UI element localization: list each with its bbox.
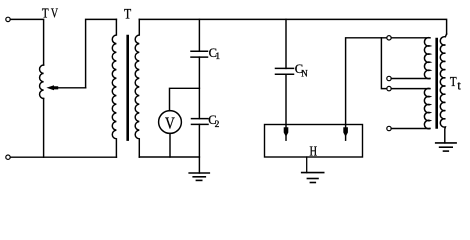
Tt secondary winding: [440, 34, 446, 143]
node: Tt terminal 3: [387, 86, 391, 90]
wire: terminal4 to Tt lower primary bottom: [391, 128, 430, 130]
svg-text:H: H: [310, 145, 318, 160]
voltmeter V: [159, 111, 182, 134]
svg-text:N: N: [301, 68, 308, 78]
input terminal top-left: [6, 17, 10, 21]
wire: variac bottom lead: [43, 99, 45, 158]
arrow into H (left): [284, 127, 289, 140]
wire: bottom-left rail: [10, 156, 116, 158]
svg-text:2: 2: [215, 120, 220, 130]
wire: CN top lead: [285, 19, 287, 68]
wire: terminal1 to Tt upper primary top: [391, 37, 430, 39]
svg-text:1: 1: [215, 52, 220, 62]
node: Tt terminal 1: [387, 36, 391, 40]
svg-text:V: V: [51, 6, 58, 21]
wire: junction riser terminal1 net to terminal3: [381, 38, 386, 89]
svg-text:V: V: [165, 114, 175, 133]
wiper arrow of TV: [46, 85, 85, 90]
Tt upper primary winding: [424, 38, 429, 79]
autotransformer TV winding: [40, 65, 44, 99]
node: Tt terminal 4: [387, 126, 391, 130]
node: Tt terminal 2: [387, 76, 391, 80]
wire: top HV bus: [139, 19, 446, 34]
input terminal bottom-left: [6, 155, 10, 159]
transformer T secondary winding: [135, 19, 139, 157]
capacitor C2: [192, 119, 209, 125]
capacitor C1: [191, 51, 208, 57]
wire: C1-C2 middle lead: [198, 57, 200, 119]
svg-text:T: T: [42, 6, 49, 21]
ground (C2 branch): [189, 173, 209, 180]
wire: terminal3 to Tt lower primary top: [391, 88, 430, 90]
svg-text:t: t: [457, 78, 461, 93]
Tt core: [435, 39, 438, 128]
svg-text:T: T: [124, 6, 131, 22]
wire: CN bottom lead into box H: [285, 74, 287, 128]
wire: C2 bottom lead to ground: [198, 124, 200, 173]
capacitor CN: [276, 68, 294, 74]
transformer T core: [126, 36, 129, 140]
transformer T primary winding: [112, 19, 116, 157]
wire: voltmeter bottom lead: [169, 133, 171, 157]
wire: Tt tap feed down to H (right arrow branch): [346, 38, 387, 128]
arrow into H (right): [343, 127, 348, 140]
Tt lower primary winding: [424, 88, 430, 128]
ground (Tt secondary): [436, 143, 456, 151]
wire: C1 top lead: [198, 19, 200, 51]
wire: voltmeter tap: [170, 88, 200, 110]
svg-text:T: T: [450, 75, 457, 90]
wire: terminal2 to Tt upper primary bottom: [391, 78, 430, 80]
wire: bottom middle rail: [139, 156, 199, 158]
wire: wiper riser to T primary: [86, 19, 117, 87]
box H: [265, 125, 363, 158]
ground (box H): [302, 157, 324, 183]
wire: top-left terminal to variac top: [10, 19, 43, 65]
